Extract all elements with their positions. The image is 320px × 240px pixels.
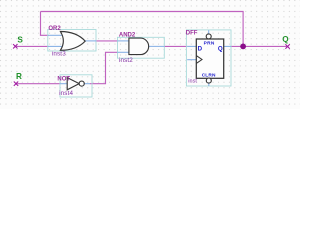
wire OR output to AND input (96, 40, 118, 42)
pin marker port Q (285, 44, 289, 48)
svg-text:Q: Q (282, 35, 289, 44)
svg-text:CLRN: CLRN (202, 72, 216, 78)
pin stub AND input 2 (118, 51, 130, 53)
pin stub OR input 1 (48, 34, 62, 36)
svg-text:D: D (198, 45, 203, 52)
and-gate U-AND2 body (129, 38, 149, 55)
wire feedback left vertical (40, 12, 42, 36)
svg-text:DFF: DFF (186, 31, 198, 37)
svg-text:inst2: inst2 (119, 57, 133, 64)
wire NOT output to AND input (90, 52, 118, 83)
svg-text:Q: Q (218, 45, 223, 52)
wire feedback top horizontal (41, 11, 244, 13)
flip-flop U-DFF rectangle (196, 39, 223, 78)
wire DFF Q to port Q (231, 45, 288, 47)
svg-text:inst3: inst3 (52, 51, 66, 58)
pin stub OR output (85, 40, 96, 42)
pin marker port S (13, 44, 17, 48)
flip-flop DFF PRN bubble (206, 34, 211, 39)
wire feedback into OR input (40, 34, 48, 36)
wire from S port (15, 45, 48, 47)
wire AND output to DFF D (164, 45, 187, 47)
not-gate U-NOT bubble (79, 81, 84, 86)
pin stub NOT input (60, 83, 67, 85)
selection box NOT (60, 75, 92, 97)
selection box DFF (186, 30, 231, 86)
pin stub OR input 2 (48, 45, 62, 47)
pin stub AND output (148, 45, 164, 47)
pin stub AND input 1 (118, 40, 130, 42)
pin marker port R (14, 82, 18, 86)
svg-text:inst4: inst4 (59, 90, 73, 97)
pin stub DFF D (187, 45, 196, 47)
svg-text:AND2: AND2 (119, 32, 136, 38)
wire feedback right vertical (242, 12, 244, 47)
pin stub DFF CLRN (208, 83, 210, 86)
svg-text:PRN: PRN (204, 40, 215, 46)
or-gate U-OR2 body (60, 32, 85, 51)
pin stub NOT output (84, 83, 90, 85)
svg-text:R: R (16, 72, 22, 81)
svg-text:OR2: OR2 (48, 26, 61, 32)
pin stub DFF Q (224, 45, 231, 47)
flip-flop DFF clock triangle (196, 56, 202, 64)
selection box OR2 (48, 30, 96, 52)
svg-text:inst: inst (188, 78, 197, 84)
pin stub DFF clock (187, 59, 196, 61)
selection box AND2 (118, 37, 165, 58)
flip-flop DFF CLRN bubble (206, 78, 211, 83)
svg-text:S: S (17, 35, 23, 44)
svg-text:NOT: NOT (57, 76, 70, 82)
not-gate U-NOT body (67, 78, 79, 90)
junction node Q feedback (240, 44, 246, 50)
wire from R port (16, 83, 60, 85)
pin stub DFF PRN (208, 30, 210, 34)
